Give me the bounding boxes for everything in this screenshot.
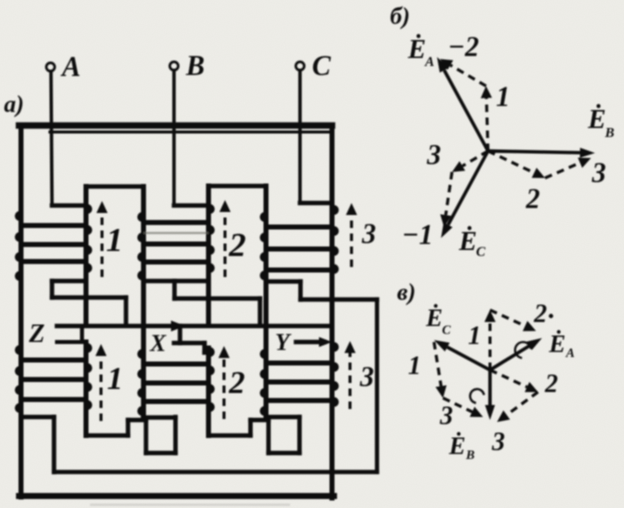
curl mark near EA2 [515,342,531,358]
bottom meander phase 2 [209,433,251,437]
svg-text:3: 3 [439,401,453,430]
upper winding 2 turn wires [144,220,209,225]
upper winding 3 flux arrow [350,215,353,267]
lower winding 2 turn wires [144,362,209,367]
svg-text:B: B [604,126,614,141]
phasor EA solid [444,70,488,151]
svg-text:A: A [424,55,434,70]
upper winding box 1 right rail [141,187,146,418]
svg-text:3: 3 [491,427,505,456]
phasor EC solid [448,151,488,225]
phasor 3 dashed left [462,151,488,166]
lower turn bumps left frame rail [15,345,20,355]
upper winding 2 exit step [144,279,209,283]
phasor 2 upright dashed [490,310,525,326]
node X arrowhead on middle wire [171,321,185,332]
lower winding 3 flux arrow [349,353,352,409]
upper winding 3 turn wires [266,225,332,230]
phasor 1 dashed [486,98,488,151]
svg-text:Ė: Ė [425,304,443,332]
svg-text:−2: −2 [448,32,479,63]
phasor 3 to EB dashed [443,398,472,412]
upper winding box 2 left rail [206,186,211,325]
phasor 3 bottom dashed [507,392,538,415]
upper winding box 1 top [86,184,144,188]
upper winding box 1 left rail [84,187,89,326]
wire A stem [51,72,52,206]
upper turn bumps left frame rail [15,211,20,221]
lower winding 3 turn wires [266,361,332,366]
bottom wire left hook [21,415,54,419]
lower winding box 2 left rail [206,348,211,436]
svg-text:B: B [185,51,205,82]
svg-text:б): б) [390,4,410,30]
node Y wire [296,340,324,344]
outer frame bottom edge [19,493,334,499]
upper winding box 2 right rail [264,186,269,417]
wire A elbow [52,203,86,207]
curl mark near EB2 [470,389,484,403]
svg-text:в): в) [397,280,416,306]
phasor -2 dashed [450,65,486,86]
svg-text:а): а) [4,92,24,118]
phasor 2 dashed [488,151,534,173]
svg-text:Ė: Ė [458,226,477,256]
svg-text:Ė: Ė [448,432,466,460]
phasor 2 downright dashed [490,370,527,387]
phasor 3 dashed right [545,163,580,178]
upper winding box 2 top [209,184,267,188]
svg-text:1: 1 [408,351,421,380]
svg-text:C: C [442,322,451,337]
outer frame left rail [19,125,24,497]
lower winding 1 turn wires [21,358,86,363]
svg-text:2: 2 [544,369,558,398]
svg-text:Ė: Ė [407,34,426,64]
upper winding 3 exit step [266,279,301,283]
svg-text:2: 2 [228,227,246,264]
scan speck row below frame [90,504,290,507]
lower turn bumps winding2 rails [210,347,215,357]
svg-text:3: 3 [359,362,374,393]
svg-text:−1: −1 [402,220,433,251]
svg-text:2: 2 [533,299,547,328]
svg-text:Y: Y [275,330,292,356]
middle wire [57,324,332,329]
svg-text:B: B [465,447,475,462]
lower winding box 1 left rail [84,342,89,436]
svg-text:C: C [476,245,486,260]
phasor -1 dashed [446,172,452,215]
phasor 1 left dashed [434,342,441,386]
phasor EB solid [488,151,580,153]
upper winding 1 exit step [52,279,86,283]
svg-text:1: 1 [107,360,123,396]
terminal B [170,62,178,70]
lower winding 1 flux arrow [100,356,103,421]
phasor EB2 solid [488,370,491,405]
upper turn bumps winding2 rails [210,204,215,214]
phasor EC2 solid [447,347,490,370]
lower turn bumps winding3 rail [334,342,339,352]
upper turn bumps winding1 rails [87,204,92,214]
svg-text:X: X [149,331,167,357]
svg-text:1: 1 [468,321,481,350]
phasor 1 up dashed [489,322,492,370]
node Z hook [80,326,84,342]
outer frame top edge [19,122,332,129]
wire C elbow [300,201,332,205]
wire B stem [172,71,175,206]
node X hook [178,326,182,343]
svg-text:3: 3 [591,158,606,189]
svg-text:3: 3 [426,140,441,171]
lower winding 2 flux arrow [223,358,226,419]
svg-text:Ė: Ė [587,104,606,134]
wire C stem [298,71,301,204]
svg-text:2: 2 [525,184,540,215]
upper winding 1 flux arrow [101,213,104,277]
svg-text:A: A [565,345,575,360]
outer frame top inner wire [50,131,331,134]
lower turn bumps winding1 rails [87,343,92,353]
terminal C [296,62,304,70]
phasor EA2 solid [490,346,529,370]
upper winding 2 flux arrow [224,212,227,277]
svg-text:A: A [60,52,81,83]
terminal A [46,63,54,71]
svg-text:1: 1 [496,82,510,113]
outer frame right rail [330,125,335,498]
svg-text:3: 3 [361,219,376,250]
svg-text:2: 2 [228,364,245,400]
bottom meander phase 1 [86,433,128,437]
upper turn bumps winding3 rail [334,205,339,215]
svg-text:C: C [312,51,331,82]
wire B elbow [174,203,209,207]
bottom bus wire [54,470,377,474]
aux frame right rail [375,300,379,473]
svg-text:Ė: Ė [548,330,566,358]
svg-text:1: 1 [106,222,123,259]
upper winding 1 turn wires [21,223,86,228]
svg-text:Z: Z [28,319,45,348]
